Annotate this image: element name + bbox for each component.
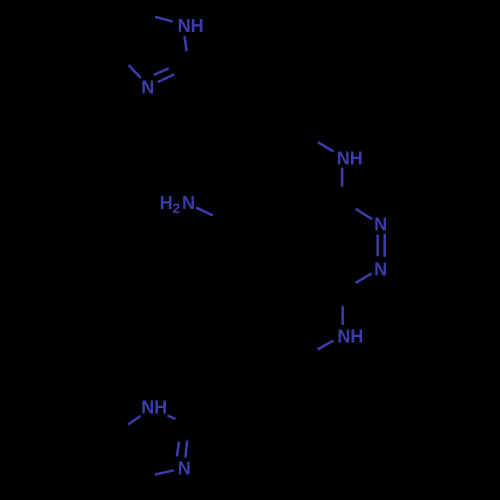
svg-text:N: N bbox=[178, 458, 191, 478]
svg-text:N: N bbox=[141, 78, 154, 98]
svg-text:NH: NH bbox=[337, 327, 363, 347]
svg-text:N: N bbox=[182, 193, 195, 213]
svg-text:NH: NH bbox=[337, 149, 363, 169]
svg-text:H: H bbox=[160, 193, 173, 213]
svg-text:2: 2 bbox=[172, 200, 180, 216]
svg-text:N: N bbox=[374, 260, 387, 280]
svg-text:NH: NH bbox=[141, 398, 167, 418]
svg-text:N: N bbox=[374, 214, 387, 234]
svg-text:NH: NH bbox=[178, 16, 204, 36]
